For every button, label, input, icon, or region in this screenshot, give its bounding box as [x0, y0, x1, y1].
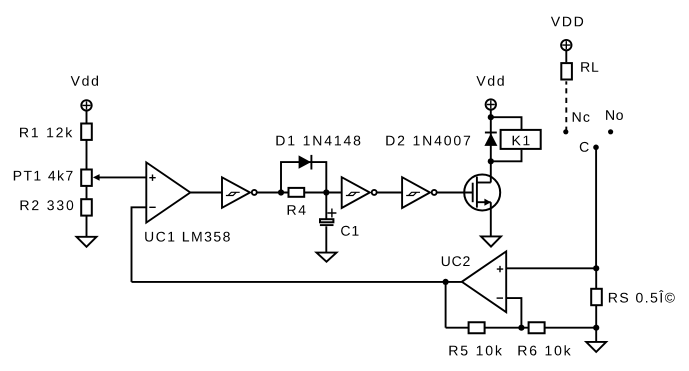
- resistor R2: [81, 199, 92, 215]
- op-amp UC1: [146, 162, 190, 222]
- label R5 10k: [449, 345, 502, 355]
- label Nc: [573, 112, 590, 122]
- ground left: [77, 237, 97, 247]
- label RL: [581, 62, 598, 72]
- power symbol VDD top right: [561, 40, 571, 50]
- wire rail to RS: [595, 268, 597, 288]
- inverter (schmitt) 2: [342, 177, 377, 208]
- wire to R5 left: [446, 327, 469, 329]
- power symbol Vdd relay: [486, 99, 496, 109]
- wire C1 branch upper: [325, 193, 327, 220]
- label UC1 LM358: [145, 232, 230, 242]
- ground below MOSFET: [481, 236, 501, 246]
- contact Nc: [563, 129, 568, 134]
- label R2 330: [21, 200, 74, 210]
- ground below C1: [317, 253, 337, 262]
- wire RL solid stub: [565, 81, 567, 84]
- relay coil K1: [501, 130, 541, 149]
- wire C1 to ground: [325, 226, 327, 252]
- node junction R4-C1: [323, 189, 329, 195]
- inverter (schmitt) 3: [402, 177, 437, 208]
- wire Vdd rail left: [86, 111, 88, 123]
- resistor RS: [591, 289, 602, 305]
- label R4: [288, 205, 306, 215]
- diode D1: [299, 155, 312, 170]
- label D1 1N4148: [276, 136, 360, 146]
- wire VDD to RL: [565, 50, 567, 62]
- power symbol Vdd left: [81, 100, 91, 110]
- node junction R5-R6: [518, 325, 524, 331]
- wire inverter 3 output to MOSFET gate: [437, 192, 472, 194]
- wire R5 to R6: [484, 327, 528, 329]
- label C: [580, 142, 589, 152]
- label VDD: [551, 17, 583, 27]
- wire R2 to ground: [86, 216, 88, 236]
- wire D1 bypass branch: [281, 162, 326, 192]
- diode D2 flyback: [484, 133, 497, 146]
- wire PT1 to R2: [86, 187, 88, 199]
- contact C: [593, 145, 599, 151]
- wire UC2 + input to rail: [506, 267, 596, 269]
- label PT1 4k7: [14, 170, 73, 180]
- label Vdd relay: [476, 76, 503, 86]
- label No: [606, 110, 623, 120]
- wire Vdd to K1/D2 node: [490, 110, 492, 162]
- label Vdd left: [71, 76, 98, 86]
- wire R4 node to inverter 2: [305, 192, 342, 194]
- wire inverter 2 output to inverter 3: [377, 192, 402, 194]
- resistor R5: [469, 322, 485, 333]
- label R6 10k: [518, 345, 570, 355]
- resistor RL: [561, 63, 572, 79]
- wire K1 bottom branch: [491, 150, 522, 162]
- wire RS to ground junction: [595, 306, 597, 342]
- resistor R4: [289, 188, 305, 197]
- ground right rail: [586, 342, 606, 352]
- node junction rail bottom: [593, 325, 599, 331]
- node junction inverter1-R4: [278, 189, 284, 195]
- resistor R1: [81, 124, 92, 140]
- node junction K1 bottom / drain: [488, 158, 494, 164]
- wire inverter 1 output to R4 node: [257, 192, 288, 194]
- node junction UC2 output: [443, 279, 449, 285]
- label RS 0.5 ohm: [609, 290, 675, 302]
- op-amp UC2: [462, 251, 506, 312]
- label R1 12k: [20, 127, 72, 137]
- node junction K1 top: [488, 114, 494, 120]
- wire drain to MOSFET: [490, 161, 492, 182]
- node junction rail + input: [593, 265, 599, 271]
- wire C contact down right rail: [595, 147, 597, 268]
- label K1: [513, 136, 530, 146]
- label D2 1N4007: [386, 136, 470, 146]
- wire R1 to PT1: [86, 140, 88, 168]
- resistor R6: [529, 322, 545, 333]
- potentiometer PT1: [81, 170, 92, 186]
- wire K1 top branch: [491, 117, 522, 129]
- wire MOSFET source to ground: [490, 202, 492, 236]
- wire UC2 output down to R5: [445, 282, 447, 328]
- wire R6 to rail: [544, 327, 596, 329]
- label UC2: [442, 256, 470, 266]
- wire UC2 - input jog: [506, 298, 521, 328]
- transistor Q1 MOSFET: [464, 175, 500, 211]
- wire + input UC1 from PT1: [99, 176, 146, 178]
- label C1: [341, 226, 358, 236]
- inverter (schmitt) 1: [222, 177, 257, 208]
- capacitor C1: [320, 209, 337, 226]
- wire feedback long horizontal from UC2 output: [132, 281, 462, 283]
- PT1 wiper arrow: [93, 174, 100, 181]
- wire UC1 output to inverter 1: [190, 192, 222, 194]
- wire RL to Nc dashed mechanical link: [565, 88, 567, 131]
- contact No: [608, 129, 613, 134]
- wire - input UC1 feedback vertical: [132, 207, 147, 282]
